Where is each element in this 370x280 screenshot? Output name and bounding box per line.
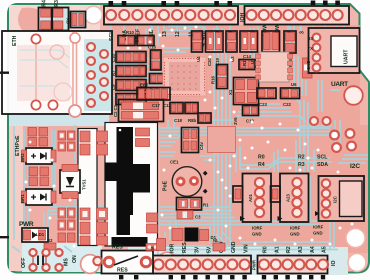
pad pair transformer top right [136,128,150,136]
svg-text:RES: RES [117,268,128,274]
mounting hole bottom-left [81,255,100,274]
svg-text:R3: R3 [54,0,60,7]
pad pair mid [29,167,38,176]
pin hole 8x [154,260,164,270]
svg-text:UART: UART [344,49,350,64]
wire mesh top center [145,28,147,50]
resistor R2 [44,243,56,250]
tab A01 [233,186,243,202]
bridge BR2 [26,148,52,164]
resistor R16 [217,65,228,89]
pad column B [100,50,108,58]
header J1 digital high [104,6,238,25]
svg-text:I2C: I2C [333,196,338,203]
svg-text:5V: 5V [207,246,213,253]
wire left column [13,126,15,240]
relay K3 body [208,127,236,153]
svg-text:OFF: OFF [21,258,27,268]
svg-text:A23: A23 [286,194,291,202]
capacitor C13 [243,106,259,116]
svg-text:U5: U5 [250,58,255,64]
svg-text:IORF: IORF [290,226,301,231]
pad hole eth1 [31,34,40,43]
header J2 digital low [245,6,350,25]
part R20 [146,244,159,251]
salmon blob top-left [18,8,44,30]
copper pour bottom right [230,125,368,253]
relay K1 body white [78,129,97,246]
svg-text:I2C: I2C [350,163,360,170]
part row below U1 R12 [198,113,211,123]
svg-text:C19: C19 [215,58,220,66]
mounting hole right-mid [344,86,363,105]
svg-text:TX: TX [308,46,314,51]
pad hole eth2 [70,33,80,43]
mounting hole bottom-right corner [348,254,366,272]
svg-text:NL: NL [213,238,219,243]
svg-text:IORF: IORF [313,225,324,230]
svg-text:A4: A4 [310,246,316,253]
svg-text:SCL: SCL [317,155,328,161]
blue patch magnetics [84,39,111,111]
pad hole eth4 [48,100,57,109]
tick mark left edge [0,72,9,74]
capacitor C22 [281,88,300,99]
svg-text:RES: RES [182,242,188,253]
capacitor C14 [239,60,255,70]
part NL [213,243,225,251]
svg-text:C4v: C4v [199,142,204,150]
svg-text:CE1: CE1 [170,160,179,165]
part row C16 [116,52,146,63]
capacitor CE1 [172,167,202,197]
part U4 [192,31,203,52]
svg-text:PoE: PoE [163,180,169,191]
svg-text:X1: X1 [228,89,233,95]
wire stubs under header B [263,25,265,31]
wire bundle horizontal bottom [50,206,230,208]
relay RES body [102,251,154,274]
svg-text:ETHPoE: ETHPoE [15,135,21,156]
pad hole gnd [313,64,321,72]
cap column C34 [58,233,66,242]
pad hole rx [313,34,321,42]
resistor R10 [118,36,135,46]
svg-text:U4: U4 [196,56,201,62]
arrow I2C [315,211,320,216]
copper pour top center-right [110,25,360,125]
svg-text:R2: R2 [286,246,292,253]
cap column C33 [68,208,76,218]
svg-text:U6: U6 [291,82,297,87]
bar component below transformer [112,237,148,247]
pad pair top [28,128,37,137]
mounting hole top-left [85,6,103,24]
ic U6 SOIC [259,52,289,82]
capacitor pair above CE1 [182,128,199,153]
bottom-left blue patch [22,243,102,272]
svg-text:C17: C17 [152,103,160,108]
svg-text:EB7: EB7 [140,83,149,88]
svg-text:SDA: SDA [317,162,328,168]
pad hole eth3 [31,100,40,109]
resistor R18 [284,31,296,53]
capacitor C23 [257,88,276,99]
pad hole eth5 [69,105,81,117]
svg-text:BR2: BR2 [20,153,25,162]
svg-text:IORF: IORF [252,226,263,231]
svg-text:A5: A5 [322,246,328,253]
light corner top-left [9,5,100,30]
svg-text:SCL: SCL [109,30,115,41]
relay K2 body white with black core [105,123,158,247]
wire bundle vertical center [213,28,215,250]
led LD1 [22,228,48,242]
cap column C32 [58,208,66,218]
svg-text:ETH: ETH [12,35,18,46]
resistor R1X [150,74,164,84]
wire mesh center low [167,120,169,128]
svg-text:R4: R4 [42,0,48,7]
svg-text:MS: MS [64,258,70,266]
svg-text:3V: 3V [195,246,201,253]
mounting hole center-bottom [158,252,176,270]
caps C20 C19 [206,31,224,52]
svg-text:VIN: VIN [244,244,250,253]
capacitor CX [71,12,86,28]
bridge BR1 [26,189,52,205]
svg-text:R16: R16 [211,76,216,84]
wire mesh right low [309,176,311,220]
mcu U1 QFP [163,57,206,96]
wire inside eth [72,32,74,110]
pin1 dot marks [109,1,114,6]
connector A01 [243,174,272,223]
pad hole res2 [141,257,151,267]
part row below U1 C5 [170,103,183,114]
wire mesh bottom left [23,130,25,238]
connector A23 [280,174,309,223]
svg-text:IOR: IOR [170,244,176,253]
svg-text:GND: GND [313,231,323,236]
wire diagonal bottom right [240,158,330,165]
svg-text:3V6: 3V6 [233,117,238,125]
header J4 analog [258,256,328,274]
header J3 power [152,256,251,274]
svg-text:A1: A1 [275,246,281,253]
pads I2C top 2x2 [330,131,339,140]
resistor R4 R3 pack [39,8,69,31]
svg-text:RX: RX [308,36,314,41]
part row R6 [116,94,146,105]
cap C8 C1 pack [119,100,164,122]
svg-text:13: 13 [162,31,168,37]
svg-text:C12: C12 [163,103,171,108]
pin leg dots bottom [169,275,173,279]
diode D2 [303,58,313,78]
pad pair below uart [310,117,318,125]
wire bundle top right [249,28,251,60]
resistor R1 [177,198,202,211]
diode TVS1 [60,170,80,193]
svg-text:R4: R4 [258,162,265,168]
svg-text:IO: IO [331,261,337,266]
wire bundle above bottom header [160,245,335,247]
connector UART [309,28,360,73]
svg-text:C18: C18 [174,118,182,123]
svg-text:R0: R0 [263,246,269,253]
svg-text:RES: RES [112,245,123,251]
part row below U1 C7 [185,103,198,114]
svg-text:A3: A3 [298,246,304,253]
svg-text:UART: UART [331,81,348,88]
svg-text:12: 12 [175,31,181,37]
parts R17 C21 [240,31,258,52]
svg-text:GND: GND [290,232,300,237]
svg-text:R10: R10 [126,30,134,35]
capacitor C3 [177,211,193,220]
svg-text:ON: ON [72,255,78,263]
blue patch mid-left band [9,114,109,126]
connector I2C [319,176,365,221]
tab A23 [271,186,281,202]
wire mesh top right [257,26,259,30]
switch bars [38,256,43,266]
svg-text:M: M [150,246,155,250]
left strip light [9,115,23,271]
diode D1 [172,229,183,241]
pad pair transformer bottom right [147,213,158,222]
wire mesh right mid [294,56,300,104]
svg-text:PWR: PWR [252,259,257,270]
pin1 dot marks J2 [311,1,316,6]
pad hole left of res [93,257,101,265]
svg-text:LD1: LD1 [36,232,45,237]
cap column C30 [58,131,66,140]
copper pour center bottom [160,125,230,250]
svg-text:C10: C10 [111,54,116,62]
pad hole res1 [104,257,114,267]
copper pour left low [22,125,78,247]
pin hole 6x [259,260,269,270]
pin hole 8x [247,10,257,20]
tick mark left edge low [0,236,9,238]
svg-text:TVS1: TVS1 [82,179,87,190]
svg-text:C22: C22 [283,102,291,107]
svg-text:BR1: BR1 [20,194,25,203]
part row mid C17 [137,88,170,101]
parts R19 pair [262,31,280,52]
svg-text:PWR: PWR [19,221,34,228]
crystal XT [234,78,259,105]
capacitor C15 [151,50,162,70]
svg-text:R7: R7 [111,70,116,76]
hole faint2 [54,83,72,101]
svg-text:C2 C1: C2 C1 [113,104,118,117]
svg-text:C3: C3 [195,215,201,220]
wire bundle eth to qfp [112,52,163,60]
svg-text:C20: C20 [207,58,212,66]
wire bundle mid horizontal [112,127,330,129]
part M1 [157,239,166,251]
mounting hole right-low [346,228,365,247]
resistor R9 [137,36,154,46]
wire bundle right vertical [299,100,301,175]
transformer core black shape [105,127,151,235]
pad column A [87,43,95,51]
part row C9 [116,80,146,91]
svg-text:R3: R3 [298,162,305,168]
svg-text:CX: CX [66,18,71,24]
connector ETH footprint body [2,31,112,114]
switch lever [114,256,138,265]
cap column C31 [68,131,76,140]
svg-text:GND: GND [231,241,237,253]
bottom header blue patch [128,247,348,275]
svg-text:R2: R2 [298,155,305,161]
svg-text:C9: C9 [111,84,116,90]
wire stubs under header A [110,25,112,31]
svg-text:3: 3 [300,31,306,34]
pad hole io [313,54,321,62]
wire top left short [20,31,60,33]
hole faint [50,45,64,59]
svg-text:R17: R17 [242,58,247,66]
svg-text:R1: R1 [203,203,209,208]
pad cluster K bottom [80,208,90,220]
shield area faint [17,45,70,101]
pad hole tx [313,44,321,52]
svg-text:GND: GND [252,232,262,237]
wire stubs above bottom headers [157,249,159,255]
pad cluster K top [80,131,90,142]
svg-text:C23: C23 [259,102,267,107]
svg-text:R8b: R8b [188,118,196,123]
part U3 [226,31,237,52]
svg-text:R0: R0 [258,155,265,161]
svg-text:GND: GND [306,60,311,70]
svg-text:R2: R2 [47,238,53,243]
svg-text:A01: A01 [248,194,253,202]
svg-text:C15: C15 [148,45,156,50]
part row R7 [116,66,146,77]
pin hole 10x [106,10,116,20]
